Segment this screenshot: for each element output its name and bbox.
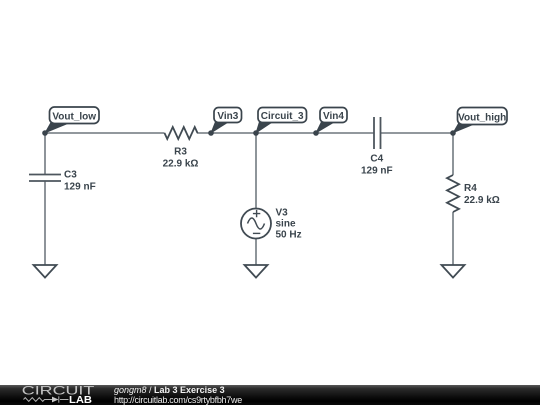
svg-text:Vin3: Vin3 bbox=[217, 111, 238, 122]
svg-text:Vout_low: Vout_low bbox=[52, 112, 96, 123]
svg-text:R4: R4 bbox=[464, 183, 477, 194]
svg-text:LAB: LAB bbox=[69, 394, 92, 405]
svg-text:129 nF: 129 nF bbox=[361, 166, 393, 177]
svg-text:sine: sine bbox=[276, 219, 296, 230]
svg-text:22.9 kΩ: 22.9 kΩ bbox=[163, 159, 199, 170]
svg-text:C3: C3 bbox=[64, 170, 77, 181]
svg-text:129 nF: 129 nF bbox=[64, 182, 96, 193]
svg-text:V3: V3 bbox=[276, 208, 289, 219]
svg-text:C4: C4 bbox=[370, 154, 383, 165]
svg-text:Circuit_3: Circuit_3 bbox=[261, 111, 304, 122]
svg-text:50 Hz: 50 Hz bbox=[276, 230, 302, 241]
svg-text:22.9 kΩ: 22.9 kΩ bbox=[464, 195, 500, 206]
svg-text:R3: R3 bbox=[174, 147, 187, 158]
svg-text:Vout_high: Vout_high bbox=[458, 113, 506, 124]
svg-text:Vin4: Vin4 bbox=[323, 111, 344, 122]
